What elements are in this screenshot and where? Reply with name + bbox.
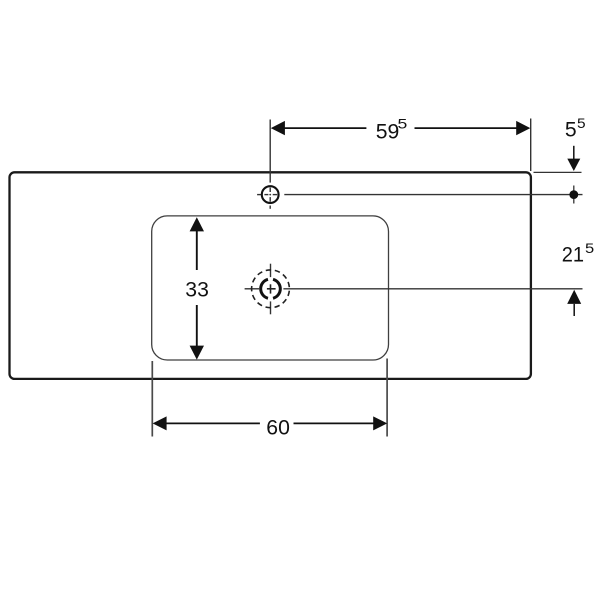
dimension 5.5 : arrow pointing down to countertop top edge — [573, 146, 575, 159]
svg-text:5: 5 — [585, 240, 594, 256]
drain outer dashed circle — [252, 270, 290, 308]
drain horizontal centerline — [245, 288, 583, 290]
drain vertical centerline — [270, 264, 272, 315]
svg-text:5: 5 — [565, 119, 577, 142]
svg-text:21: 21 — [562, 243, 584, 266]
faucet hole vertical centerline / left extension line of 59.5 — [269, 120, 271, 209]
dimension 21.5 : arrow pointing up to drain centerline — [567, 290, 581, 304]
dimension 60 : dimension line — [166, 422, 374, 424]
svg-text:5: 5 — [398, 115, 408, 131]
countertop outline — [10, 172, 531, 379]
dimension 33 : bottom arrowhead — [190, 346, 204, 360]
svg-text:60: 60 — [266, 417, 290, 440]
countertop top edge extension line (right) — [534, 171, 582, 173]
faucet hole horizontal centerline to right reference dot — [257, 194, 582, 196]
dimension 60 : left arrowhead — [153, 416, 167, 430]
basin inner bowl outline — [152, 216, 389, 360]
dimension 60 : right arrowhead — [373, 416, 387, 430]
drain inner circle arcs — [261, 279, 281, 298]
faucet hole center point — [269, 194, 271, 196]
dimension 60 : extension line right — [386, 359, 388, 437]
drain center cross — [267, 284, 276, 293]
reference dot on faucet centerline (right) — [573, 186, 575, 204]
dimension 59.5 : extension line right — [530, 119, 532, 172]
dimension 59.5 : dimension line — [284, 127, 517, 129]
dimension 33 : dimension line — [196, 231, 198, 347]
dimension 60 : extension line left — [151, 361, 153, 437]
svg-text:59: 59 — [376, 121, 400, 144]
dimension 59.5 : left arrowhead — [271, 121, 285, 135]
faucet hole — [262, 186, 279, 203]
dimension 33 : top arrowhead — [190, 217, 204, 231]
svg-text:33: 33 — [185, 278, 209, 301]
svg-text:5: 5 — [577, 115, 586, 131]
dimension 59.5 : right arrowhead — [516, 121, 530, 135]
